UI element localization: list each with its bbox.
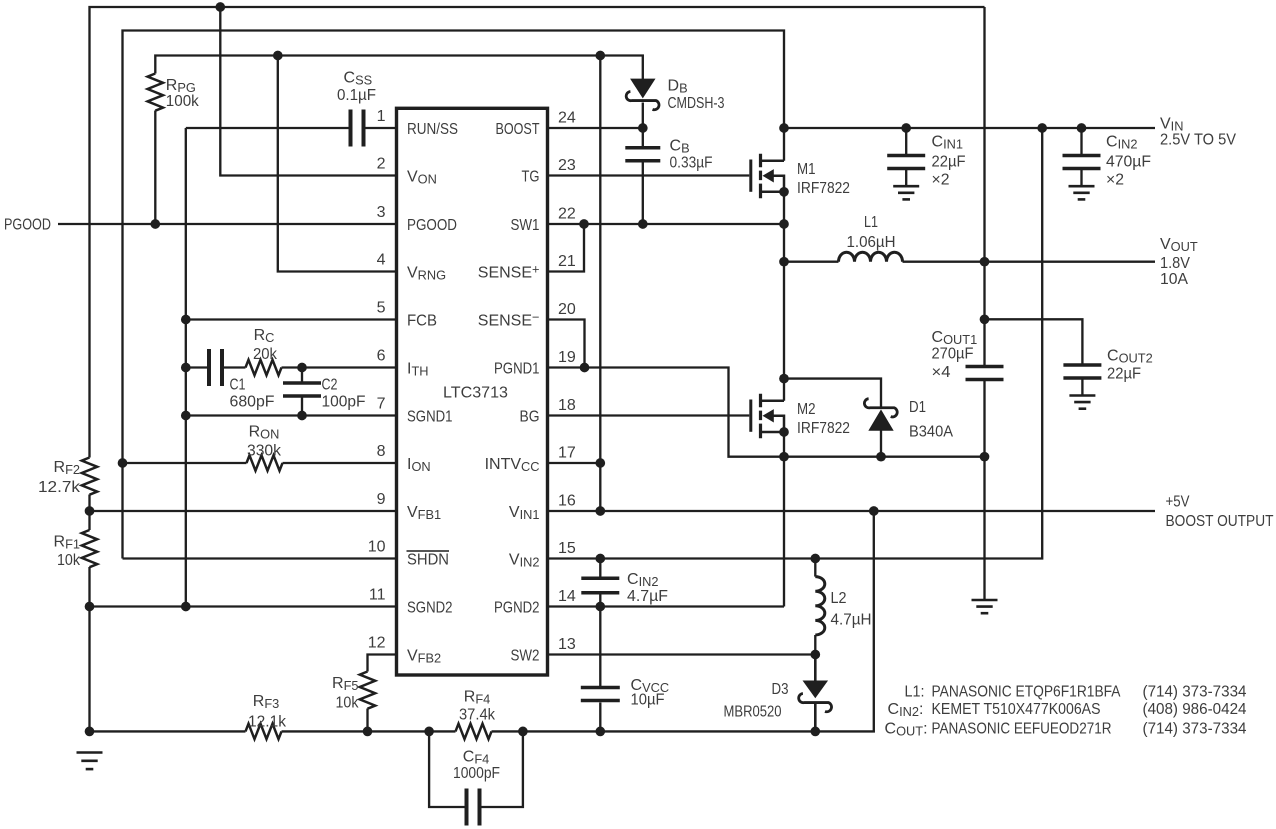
junction: VON tap on VOUT rail bbox=[215, 2, 225, 12]
svg-text:470µF: 470µF bbox=[1106, 154, 1151, 171]
op-amp U1 LTC3713 body bbox=[397, 108, 548, 675]
svg-text:22: 22 bbox=[558, 206, 576, 223]
junction: FCB on SGND vertical bbox=[181, 315, 191, 325]
svg-text:100k: 100k bbox=[166, 93, 200, 110]
junction: COUT1 bottom on power ground row bbox=[980, 452, 990, 462]
svg-text:RON: RON bbox=[249, 424, 280, 442]
junction: C2 bottom on SGND1 row bbox=[297, 411, 307, 421]
svg-text:4.7µF: 4.7µF bbox=[627, 588, 668, 605]
wire: D3 anode lead from SW2 node bbox=[814, 655, 817, 684]
junction: C2 top on ITH row bbox=[297, 363, 307, 373]
svg-text:PANASONIC ETQP6F1R1BFA: PANASONIC ETQP6F1R1BFA bbox=[932, 683, 1121, 700]
wire: L2 bottom lead to SW2 row bbox=[814, 635, 816, 655]
junction: VIN row at M1 drain bbox=[779, 123, 789, 133]
svg-text:RF3: RF3 bbox=[253, 693, 280, 711]
junction: CIN1 tap on VIN bbox=[901, 123, 911, 133]
capacitor C2 bbox=[283, 381, 321, 385]
transistor M1 drain stub bbox=[761, 160, 785, 163]
wire: TG row pin 23 to M1 gate bbox=[548, 174, 750, 176]
svg-text:CB: CB bbox=[670, 138, 690, 156]
junction: SGND2 at divider bottom bbox=[85, 602, 95, 612]
wire: VON row pin 2 up to VOUT rail bbox=[220, 7, 396, 176]
svg-text:CIN2: CIN2 bbox=[627, 571, 658, 589]
wire: SHDN row pin 10 to VIN vertical bbox=[123, 557, 397, 559]
wire: VOUT feedback top rail from COUT1 column to RF2 divider bbox=[90, 7, 985, 458]
transistor M2 gate bar bbox=[749, 400, 752, 432]
capacitor CIN1 bbox=[887, 154, 925, 158]
svg-text:330k: 330k bbox=[247, 443, 282, 460]
diode D3 triangle bbox=[804, 681, 828, 697]
svg-text:24: 24 bbox=[558, 110, 576, 127]
svg-text:+5V: +5V bbox=[1166, 494, 1190, 511]
wire: CVCC top lead from PGND2 row bbox=[599, 607, 601, 687]
wire: RUN/SS row pin 1 through CSS bbox=[186, 127, 397, 129]
svg-text:1.8V: 1.8V bbox=[1160, 255, 1190, 272]
svg-text:37.4k: 37.4k bbox=[459, 707, 496, 724]
svg-text:SW2: SW2 bbox=[511, 648, 540, 665]
svg-text:SGND2: SGND2 bbox=[407, 600, 453, 617]
ground: power ground below COUT1 bbox=[972, 599, 998, 602]
svg-text:20: 20 bbox=[558, 301, 576, 318]
wire: lower part of RF2/RF1 divider column down to ground rail bbox=[88, 495, 90, 732]
ground: CIN2 bbox=[1069, 185, 1095, 188]
wire: M2 drain row to D1 cathode bbox=[784, 379, 881, 407]
junction: COUT1 top on VOUT row bbox=[980, 257, 990, 267]
resistor RF2 bbox=[82, 458, 97, 495]
svg-text:CSS: CSS bbox=[344, 70, 373, 88]
transistor M1 body wire bbox=[774, 176, 785, 192]
wire: CIN1 leads and ground leg bbox=[905, 128, 907, 186]
junction: INTVCC drop tap on +5V rail bbox=[595, 51, 605, 61]
junction: CB bottom on SW1 row bbox=[638, 219, 648, 229]
junction: RPG on PGOOD row bbox=[150, 219, 160, 229]
wire: bottom rail gnd-RF3-node-RF4-+5V riser bbox=[90, 511, 874, 731]
svg-text:×2: ×2 bbox=[932, 172, 950, 189]
svg-text:9: 9 bbox=[377, 491, 386, 508]
svg-text:L1:: L1: bbox=[905, 683, 925, 700]
svg-text:19: 19 bbox=[558, 349, 576, 366]
wire: CIN2 4.7uF top lead bbox=[599, 559, 601, 578]
junction: SGND1 on SGND vertical bbox=[181, 411, 191, 421]
svg-text:4: 4 bbox=[377, 252, 386, 269]
junction: VRNG tap on +5V rail bbox=[273, 51, 283, 61]
svg-text:1.06µH: 1.06µH bbox=[847, 234, 896, 251]
junction: SENSE+ on SW1 row bbox=[579, 219, 589, 229]
wire: +5V BOOST OUTPUT row pin 16 to right edge bbox=[548, 510, 1156, 512]
svg-text:VFB1: VFB1 bbox=[407, 504, 441, 522]
junction: D1 anode on power ground row bbox=[876, 452, 886, 462]
svg-text:PGOOD: PGOOD bbox=[4, 217, 51, 234]
ground: COUT2 bbox=[1069, 394, 1095, 397]
junction: L2 bottom / D3 anode on SW2 row bbox=[810, 650, 820, 660]
svg-text:680pF: 680pF bbox=[230, 394, 275, 411]
transistor M1 channel segments bbox=[759, 154, 762, 198]
wire: VOUT row from switch node through L1 to right edge bbox=[784, 261, 1155, 263]
wire: RPG bottom lead to PGOOD row bbox=[154, 111, 156, 225]
wire: VFB1 row pin 9 to divider tap bbox=[90, 510, 397, 512]
junction: RF5 bottom on feedback node bbox=[363, 727, 373, 737]
transistor M2 body arrow bbox=[763, 409, 774, 422]
svg-text:VRNG: VRNG bbox=[407, 265, 446, 283]
svg-text:CIN2: CIN2 bbox=[1106, 134, 1137, 152]
diode DB schottky cathode bar bbox=[626, 92, 659, 110]
svg-text:12.1k: 12.1k bbox=[248, 714, 287, 731]
svg-text:BG: BG bbox=[520, 409, 540, 426]
junction: ION row on VIN vertical bbox=[118, 458, 128, 468]
junction: VIN2 riser tap on VIN bbox=[1037, 123, 1047, 133]
svg-text:RF5: RF5 bbox=[332, 675, 359, 693]
wire: M1 source / switch node vertical down to M2 drain bbox=[783, 192, 785, 401]
diode DB schottky triangle bbox=[631, 79, 655, 97]
svg-text:0.33µF: 0.33µF bbox=[670, 155, 713, 172]
svg-text:7: 7 bbox=[377, 396, 386, 413]
svg-text:RF1: RF1 bbox=[54, 534, 81, 552]
svg-text:CIN2:: CIN2: bbox=[888, 701, 924, 719]
pin 10 SHDN overline bbox=[407, 550, 450, 552]
svg-text:LTC3713: LTC3713 bbox=[443, 385, 508, 402]
wire: D1 anode lead to power ground row bbox=[880, 430, 882, 456]
junction: VFB1 divider tap bbox=[85, 506, 95, 516]
wire: PGND1 row pin 19 over and down to power ground row bbox=[548, 368, 985, 457]
svg-text:0.1µF: 0.1µF bbox=[337, 87, 376, 104]
svg-text:IRF7822: IRF7822 bbox=[797, 420, 850, 437]
svg-text:RC: RC bbox=[254, 327, 275, 345]
capacitor CB bbox=[625, 146, 660, 150]
svg-text:1000pF: 1000pF bbox=[453, 765, 500, 782]
inductor L2 bbox=[815, 577, 825, 635]
capacitor CIN2 4.7uF bypass bbox=[581, 577, 619, 581]
svg-text:MBR0520: MBR0520 bbox=[724, 704, 782, 721]
resistor RC bbox=[246, 360, 282, 375]
svg-text:23: 23 bbox=[558, 157, 576, 174]
svg-text:21: 21 bbox=[558, 253, 576, 270]
wire: C2 top lead from ITH row bbox=[301, 368, 303, 384]
junction: L2 top on VIN2 row bbox=[810, 554, 820, 564]
svg-text:C1: C1 bbox=[230, 377, 246, 394]
junction: CVCC bottom on +5V rail bbox=[595, 727, 605, 737]
svg-text:RF2: RF2 bbox=[54, 459, 81, 477]
junction: SGND vertical on SGND2 row bbox=[181, 602, 191, 612]
svg-text:18: 18 bbox=[558, 397, 576, 414]
junction: M2 drain / D1 cathode bbox=[779, 374, 789, 384]
svg-text:TG: TG bbox=[522, 169, 540, 186]
svg-text:100pF: 100pF bbox=[322, 394, 366, 411]
diode D1 triangle bbox=[869, 410, 893, 430]
svg-text:14: 14 bbox=[558, 588, 576, 605]
resistor RPG bbox=[148, 74, 163, 111]
svg-text:RF4: RF4 bbox=[464, 689, 491, 707]
wire: VFB2 pin 12 stub down to RF5 bbox=[368, 655, 397, 672]
svg-text:PGOOD: PGOOD bbox=[407, 217, 457, 234]
svg-text:B340A: B340A bbox=[909, 424, 953, 441]
svg-text:INTVCC: INTVCC bbox=[485, 456, 540, 474]
svg-text:VOUT: VOUT bbox=[1160, 236, 1198, 254]
ground: CIN1 bbox=[893, 185, 919, 188]
svg-text:(408) 986-0424: (408) 986-0424 bbox=[1143, 701, 1247, 718]
svg-text:(714) 373-7334: (714) 373-7334 bbox=[1143, 683, 1247, 700]
resistor RF5 bbox=[360, 672, 375, 709]
svg-text:BOOST OUTPUT: BOOST OUTPUT bbox=[1166, 513, 1274, 530]
wire: ITH row pin 6 compensation network bbox=[186, 366, 397, 368]
svg-text:COUT2: COUT2 bbox=[1107, 348, 1153, 366]
svg-text:12: 12 bbox=[368, 635, 386, 652]
wire: SENSE+ pin 21 jog up to SW1 row bbox=[548, 224, 585, 272]
svg-text:11: 11 bbox=[369, 587, 386, 604]
resistor RF4 bbox=[456, 724, 492, 739]
wire: CB bottom to SW1 row bbox=[642, 162, 644, 224]
junction: M1 source stub bbox=[779, 187, 789, 197]
capacitor COUT2 bbox=[1063, 363, 1101, 367]
wire: PGOOD row from label to pin 3 bbox=[58, 223, 397, 225]
svg-text:SGND1: SGND1 bbox=[407, 409, 453, 426]
svg-text:VFB2: VFB2 bbox=[407, 648, 441, 666]
svg-text:10k: 10k bbox=[336, 695, 360, 712]
wire: RF5 bottom lead to ground/feedback rail bbox=[366, 709, 368, 732]
capacitor CVCC bbox=[581, 686, 620, 690]
wire: SW1 row pin 22 to switch node bbox=[548, 223, 785, 225]
transistor M2 channel segments bbox=[759, 394, 762, 438]
wire: COUT2 branch from COUT1 column bbox=[985, 319, 1083, 395]
resistor RF1 bbox=[82, 530, 97, 567]
svg-text:ION: ION bbox=[407, 456, 431, 474]
svg-text:ITH: ITH bbox=[407, 361, 429, 379]
svg-text:SHDN: SHDN bbox=[407, 552, 449, 569]
svg-text:×4: ×4 bbox=[932, 364, 951, 381]
svg-text:10A: 10A bbox=[1160, 271, 1188, 288]
wire: CIN2 470uF leads and ground leg bbox=[1080, 128, 1082, 186]
diode D3 schottky cathode bar bbox=[799, 694, 832, 712]
svg-text:22µF: 22µF bbox=[1107, 366, 1141, 383]
svg-text:20k: 20k bbox=[253, 346, 278, 363]
svg-text:COUT:: COUT: bbox=[885, 720, 928, 738]
junction: COUT2 branch tap bbox=[980, 314, 990, 324]
wire: DB cathode to CB top bbox=[642, 103, 644, 148]
svg-text:PGND1: PGND1 bbox=[494, 361, 540, 378]
svg-text:2: 2 bbox=[377, 156, 386, 173]
svg-text:C2: C2 bbox=[322, 377, 338, 394]
wire: SW2 row pin 13 to L2/D3 node bbox=[548, 653, 816, 655]
svg-text:M2: M2 bbox=[797, 401, 816, 418]
capacitor CIN2 470uF bbox=[1063, 154, 1101, 158]
svg-text:DB: DB bbox=[668, 78, 688, 96]
junction: VIN1 on +5V drop bbox=[595, 506, 605, 516]
wire: SENSE- pin 20 jog down to PGND1 row bbox=[548, 320, 585, 368]
svg-text:16: 16 bbox=[558, 493, 576, 510]
junction: ground rail left end bbox=[85, 727, 95, 737]
wire: VRNG row pin 4 up to +5V rail bbox=[278, 56, 397, 272]
svg-text:M1: M1 bbox=[797, 161, 816, 178]
capacitor COUT1 bbox=[966, 365, 1004, 369]
svg-text:10µF: 10µF bbox=[631, 692, 665, 709]
svg-text:12.7k: 12.7k bbox=[38, 479, 81, 496]
svg-text:VIN1: VIN1 bbox=[509, 504, 540, 522]
wire: ION row pin 8 through RON to VIN vertical bbox=[123, 462, 397, 464]
junction: ITH row on SGND vertical bbox=[181, 363, 191, 373]
junction: SENSE- on PGND1 row bbox=[580, 363, 590, 373]
svg-text:SW1: SW1 bbox=[511, 217, 540, 234]
svg-text:6: 6 bbox=[377, 348, 386, 365]
ground: main signal ground lower-left bbox=[77, 751, 103, 754]
wire: L2 top lead from VIN2 row bbox=[814, 559, 816, 577]
wire: +5V drop vertical from top rail to VIN1 row bbox=[599, 56, 601, 512]
junction: D3 cathode on +5V rail bbox=[810, 727, 820, 737]
svg-text:10: 10 bbox=[368, 539, 386, 556]
svg-text:CMDSH-3: CMDSH-3 bbox=[668, 95, 725, 112]
transistor M2 source stub bbox=[761, 431, 785, 434]
wire: SGND2 row pin 11 bbox=[90, 605, 397, 607]
wire: BOOST row pin 24 to DB cathode bbox=[548, 127, 643, 129]
resistor RON bbox=[247, 455, 283, 470]
wire: FCB row pin 5 to SGND vertical bbox=[186, 318, 397, 320]
junction: CIN2 bypass bottom on PGND2 row bbox=[595, 602, 605, 612]
svg-text:8: 8 bbox=[377, 443, 386, 460]
svg-text:270µF: 270µF bbox=[932, 346, 974, 363]
wire: SGND vertical (RUN/SS cap to SGND2) bbox=[185, 128, 187, 607]
junction: CF4 left leg bbox=[424, 727, 434, 737]
svg-text:D1: D1 bbox=[909, 399, 926, 416]
capacitor C1 bbox=[207, 349, 211, 386]
junction: INTVCC stub on +5V drop bbox=[595, 458, 605, 468]
wire: D3 cathode lead to bottom +5V rail bbox=[814, 703, 817, 731]
wire: +5V INTVCC rail (top horizontal to DB anode) with RPG drop bbox=[155, 56, 643, 80]
svg-text:PANASONIC EEFUEOD271R: PANASONIC EEFUEOD271R bbox=[932, 720, 1112, 737]
svg-text:L1: L1 bbox=[864, 214, 878, 231]
transistor M2 drain stub bbox=[761, 400, 785, 403]
svg-text:BOOST: BOOST bbox=[496, 121, 540, 138]
transistor M1 gate bar bbox=[749, 160, 752, 192]
junction: +5V riser on boost output row bbox=[869, 506, 879, 516]
svg-text:13: 13 bbox=[558, 636, 576, 653]
transistor M2 body wire bbox=[774, 416, 785, 432]
junction: CIN2 bypass top on VIN2 row bbox=[595, 554, 605, 564]
junction: DB cathode / BOOST bbox=[638, 123, 648, 133]
transistor M1 body arrow bbox=[763, 169, 774, 182]
svg-text:SENSE−: SENSE− bbox=[478, 309, 540, 329]
svg-text:15: 15 bbox=[558, 540, 576, 557]
wire: VIN rail loop (left vertical, top horizontal, down to M1 drain) bbox=[123, 31, 785, 559]
svg-text:PGND2: PGND2 bbox=[494, 600, 540, 617]
svg-text:22µF: 22µF bbox=[932, 154, 966, 171]
diode D1 schottky cathode bar bbox=[864, 399, 897, 417]
svg-text:D3: D3 bbox=[772, 681, 789, 698]
junction: SW1 row at switch node bbox=[779, 219, 789, 229]
svg-text:10k: 10k bbox=[57, 552, 81, 569]
svg-text:1: 1 bbox=[377, 108, 386, 125]
svg-text:×2: ×2 bbox=[1106, 172, 1124, 189]
wire: BG row pin 18 to M2 gate bbox=[548, 414, 750, 416]
wire: CIN2 4.7uF bottom lead to PGND2 row bbox=[599, 593, 601, 607]
junction: VOUT row at switch node bbox=[779, 257, 789, 267]
wire: COUT1 column from top rail through cap to power ground bbox=[983, 7, 985, 599]
svg-text:IRF7822: IRF7822 bbox=[797, 180, 850, 197]
resistor RF3 bbox=[246, 724, 282, 739]
svg-text:CIN1: CIN1 bbox=[932, 134, 963, 152]
svg-text:17: 17 bbox=[558, 445, 576, 462]
svg-text:VON: VON bbox=[407, 169, 437, 187]
inductor L1 bbox=[839, 252, 903, 262]
wire: INTVCC pin 17 stub to +5V drop bbox=[548, 462, 601, 464]
wire: M2 source vertical to power ground and PGND2 corner bbox=[783, 432, 785, 607]
svg-text:RUN/SS: RUN/SS bbox=[407, 121, 458, 138]
junction: M2 source on power ground row bbox=[779, 452, 789, 462]
svg-text:VIN2: VIN2 bbox=[509, 552, 540, 570]
junction: CF4 right leg bbox=[518, 727, 528, 737]
svg-text:2.5V TO 5V: 2.5V TO 5V bbox=[1160, 132, 1236, 149]
svg-text:(714) 373-7334: (714) 373-7334 bbox=[1143, 720, 1247, 737]
svg-text:FCB: FCB bbox=[407, 313, 437, 330]
capacitor CSS bbox=[349, 110, 353, 147]
junction: M2 source stub bbox=[779, 427, 789, 437]
wire: SGND1 row pin 7 bbox=[186, 414, 397, 416]
wire: VIN row from M1 drain to right edge bbox=[784, 127, 1155, 129]
svg-text:4.7µH: 4.7µH bbox=[831, 612, 872, 629]
capacitor CF4 bbox=[465, 789, 469, 826]
transistor M1 source stub bbox=[761, 191, 785, 194]
junction: CIN2 tap on VIN bbox=[1077, 123, 1087, 133]
svg-text:SENSE+: SENSE+ bbox=[478, 261, 540, 281]
svg-text:L2: L2 bbox=[831, 590, 847, 607]
wire: CVCC bottom lead to bottom rail bbox=[599, 703, 601, 732]
wire: PGND2 row pin 14 to switch-node column ground leg bbox=[548, 605, 785, 607]
wire: VIN2 row pin 15 right and up to VIN rail bbox=[548, 128, 1043, 559]
svg-text:KEMET T510X477K006AS: KEMET T510X477K006AS bbox=[932, 701, 1101, 718]
wire: CF4 parallel loop under RF4 bbox=[429, 731, 523, 807]
svg-text:5: 5 bbox=[377, 300, 386, 317]
svg-text:3: 3 bbox=[377, 204, 386, 221]
wire: C2 bottom lead to SGND1 row bbox=[301, 396, 303, 416]
